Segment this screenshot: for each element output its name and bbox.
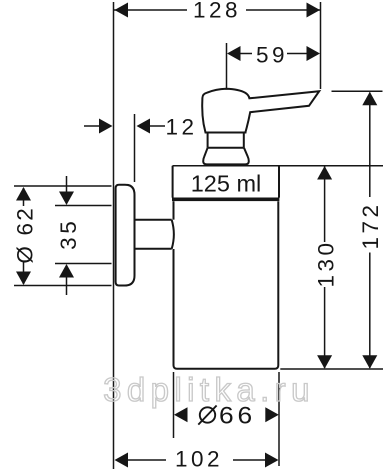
- svg-text:130: 130: [313, 239, 338, 287]
- svg-text:35: 35: [56, 218, 81, 250]
- bottle bottom right extension line: [280, 368, 383, 370]
- dimension 130: [313, 166, 338, 369]
- dimension 102: [115, 447, 279, 470]
- svg-text:3dplitka.ru: 3dplitka.ru: [103, 371, 315, 408]
- svg-text:128: 128: [193, 0, 241, 23]
- pump waist: [208, 133, 244, 148]
- dimension 35: [55, 176, 112, 295]
- svg-text:125 ml: 125 ml: [191, 171, 262, 197]
- wall plate (side view): [116, 185, 135, 286]
- svg-text:Ø 62: Ø 62: [13, 206, 38, 264]
- dimension Ø62: [13, 186, 112, 286]
- svg-text:12: 12: [165, 114, 197, 139]
- svg-text:172: 172: [358, 201, 383, 249]
- svg-text:59: 59: [256, 43, 288, 68]
- dimension 172: [332, 91, 383, 369]
- bottle body: [174, 201, 279, 369]
- dimension Ø66: [174, 372, 280, 466]
- bracket arm: [135, 220, 174, 249]
- dimension 59: [227, 43, 321, 90]
- pump flange: [203, 148, 249, 165]
- dimension 12: [84, 114, 198, 182]
- dimension 128 top: [114, 0, 321, 89]
- pump head and lever: [202, 89, 319, 133]
- wall line: [113, 2, 115, 469]
- collar 125 ml: [172, 166, 383, 201]
- svg-text:102: 102: [175, 447, 223, 470]
